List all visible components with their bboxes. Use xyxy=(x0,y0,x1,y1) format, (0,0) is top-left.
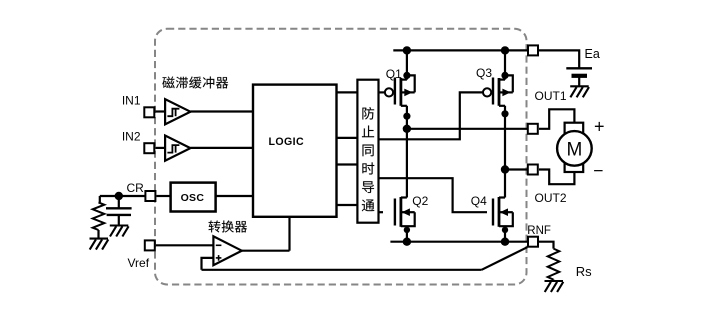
wire LOGIC to block (3) xyxy=(337,163,358,165)
pin CR pad xyxy=(145,191,155,201)
transistor Q3 (P-ch) xyxy=(476,50,513,105)
wire IN2 pad to buffer A2 xyxy=(155,147,165,149)
wire buffer A1 to LOGIC xyxy=(190,110,254,112)
ground (CR capacitor) xyxy=(110,226,129,237)
svg-text:Vref: Vref xyxy=(128,256,150,270)
wire OUT1 rail xyxy=(407,128,528,130)
label 磁滞缓冲器 (hysteresis buffer) xyxy=(162,76,228,88)
resistor (CR) xyxy=(93,202,105,230)
svg-text:OSC: OSC xyxy=(181,192,205,204)
wire Vref pad to op-amp xyxy=(156,244,214,246)
motor M1 body xyxy=(557,131,592,166)
wire OUT2 to motor − xyxy=(539,170,574,185)
pin RNF pad xyxy=(528,237,538,247)
svg-text:−: − xyxy=(593,161,603,181)
IC boundary (dashed) xyxy=(155,29,527,285)
node top rail / Q1 drain xyxy=(403,46,411,54)
wire CR node left xyxy=(100,195,119,197)
label 转换器 (converter) xyxy=(209,220,248,232)
capacitor (CR) lead2 xyxy=(118,215,120,226)
wire Q2 drain from OUT1 node xyxy=(406,129,408,198)
resistor Rs xyxy=(548,249,560,280)
svg-text:Q2: Q2 xyxy=(412,194,428,208)
pin IN2 pad xyxy=(144,143,154,153)
transistor Q2 (N-ch) xyxy=(395,194,429,242)
node Q4 source junction xyxy=(501,238,509,246)
ground (Ea capacitor) xyxy=(570,86,589,97)
wire top rail (Ea supply) xyxy=(393,49,528,51)
wire LOGIC to block (1) xyxy=(337,91,358,93)
block 防止同时导通 (shoot-through prevention) xyxy=(357,80,378,223)
wire block to Q1 gate xyxy=(379,91,386,93)
wire buffer A2 to LOGIC xyxy=(190,147,254,149)
wire op-amp output xyxy=(242,250,290,252)
wire op-amp output to LOGIC xyxy=(288,217,290,251)
block LOGIC xyxy=(253,85,337,217)
wire OSC to LOGIC xyxy=(216,195,253,197)
wire CR node to pad xyxy=(119,195,146,197)
ground (Rs) xyxy=(545,281,564,292)
wire Ea pad to capacitor xyxy=(539,50,579,68)
wire LOGIC to block (2) xyxy=(337,137,358,139)
op-amp U1 minus input label xyxy=(216,244,222,246)
label 防止同时导通 xyxy=(362,107,375,211)
pin Ea pad xyxy=(528,45,538,55)
buffer A1 (IN1 schmitt trigger) xyxy=(165,99,190,124)
node OUT2 junction xyxy=(501,165,509,173)
capacitor C1 lead xyxy=(578,76,580,87)
wire feedback (RNF sense) xyxy=(202,269,482,271)
svg-text:RNF: RNF xyxy=(527,225,551,237)
node Q2 source junction xyxy=(403,238,411,246)
wire OUT2 rail xyxy=(505,168,528,170)
wire RNF pad to Rs xyxy=(539,242,554,249)
transistor Q1 (P-ch) xyxy=(385,50,415,105)
svg-text:Q1: Q1 xyxy=(386,67,402,81)
node top rail / Q3 drain xyxy=(501,46,509,54)
svg-text:Ea: Ea xyxy=(585,47,600,61)
node CR junction xyxy=(115,192,123,200)
pin OUT2 pad xyxy=(528,165,538,175)
resistor (CR) lead2 xyxy=(97,230,99,239)
svg-text:M: M xyxy=(566,139,582,160)
svg-text:Q3: Q3 xyxy=(476,66,492,80)
svg-text:IN1: IN1 xyxy=(122,94,141,108)
wire block to Q3 gate (route) xyxy=(379,92,484,139)
motor M1 frame xyxy=(565,123,584,172)
wire op-amp plus feedback loop xyxy=(202,258,214,270)
ground (CR resistor) xyxy=(90,239,109,250)
capacitor (CR) xyxy=(106,207,132,209)
op-amp U1 (converter) xyxy=(213,236,241,265)
buffer A2 (IN2 schmitt trigger) xyxy=(165,136,190,161)
wire block to Q2 gate xyxy=(379,211,384,213)
wire feedback diagonal to RNF xyxy=(482,247,528,270)
wire Q3 source to OUT2 node xyxy=(504,106,506,198)
wire OUT1 to motor + xyxy=(539,109,574,129)
node Q1 source dot xyxy=(403,113,410,120)
wire LOGIC to block (4) xyxy=(337,204,358,206)
pin Vref pad xyxy=(145,240,155,250)
capacitor (CR) lead xyxy=(118,196,120,208)
wire CR pad to OSC xyxy=(156,195,170,197)
svg-text:OUT2: OUT2 xyxy=(535,191,567,205)
op-amp U1 plus input label xyxy=(216,257,222,259)
pin OUT1 pad xyxy=(528,124,538,134)
capacitor C1 (Ea bypass) xyxy=(566,67,592,69)
wire Q1 source to OUT1 node xyxy=(406,106,408,129)
wire block to Q4 gate (route) xyxy=(379,178,488,212)
transistor Q4 (N-ch) xyxy=(471,194,513,242)
svg-text:+: + xyxy=(594,117,605,137)
node OUT1 junction xyxy=(403,125,411,133)
block OSC xyxy=(171,183,216,212)
resistor Rs lead xyxy=(552,280,554,281)
svg-text:OUT1: OUT1 xyxy=(535,89,567,103)
svg-text:LOGIC: LOGIC xyxy=(269,136,305,148)
resistor (CR) lead xyxy=(99,196,101,202)
pin IN1 pad xyxy=(144,107,154,117)
wire IN1 pad to buffer A1 xyxy=(155,110,165,112)
svg-text:Rs: Rs xyxy=(576,264,592,279)
svg-text:CR: CR xyxy=(127,181,145,195)
svg-text:IN2: IN2 xyxy=(122,129,141,143)
node Q3 source dot xyxy=(501,110,508,117)
svg-text:Q4: Q4 xyxy=(471,194,487,208)
wire bottom rail (RNF) xyxy=(390,241,528,243)
